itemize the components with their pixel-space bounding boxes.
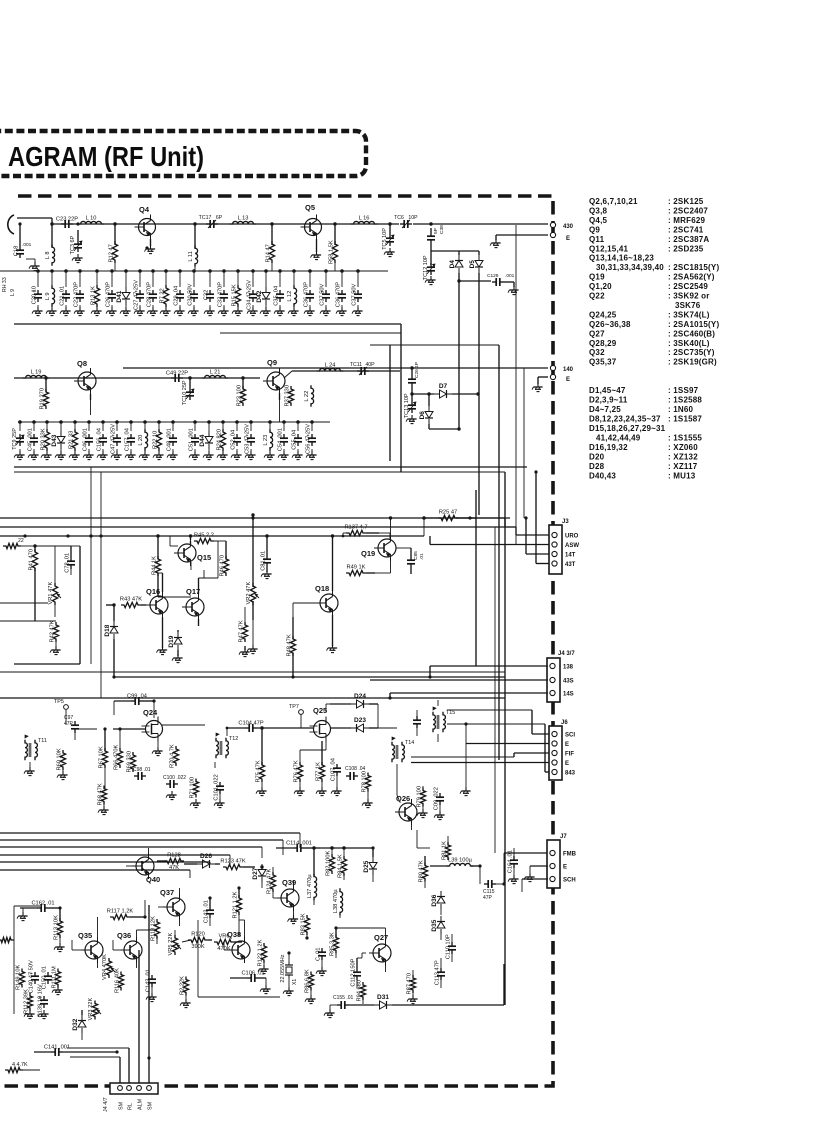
ground E mid (532, 383, 543, 392)
wire Q36 collector (137, 930, 158, 938)
junction (333, 222, 336, 225)
wire 430 E stub (496, 235, 548, 240)
svg-text:L 10: L 10 (86, 216, 97, 222)
svg-text:VR2 47K: VR2 47K (246, 582, 252, 605)
svg-text:L 9: L 9 (45, 292, 51, 300)
transistor Q19 (361, 535, 396, 561)
svg-text:C23 22P: C23 22P (56, 217, 78, 223)
svg-text:R68 47K: R68 47K (98, 783, 104, 805)
ground C26 (106, 307, 117, 316)
svg-text:D19: D19 (168, 635, 175, 647)
wire pin bends (67, 905, 155, 1060)
inductor L10 (78, 216, 105, 225)
svg-text:: 2SC460(B): : 2SC460(B) (668, 329, 715, 338)
capacitor C142 (204, 898, 215, 926)
svg-text:D8,12,23,24,35~37: D8,12,23,24,35~37 (589, 415, 661, 424)
wire bottom pins up (120, 905, 149, 1083)
wire left bus 2 (0, 846, 262, 848)
junction (241, 376, 244, 379)
svg-text:J7: J7 (560, 834, 567, 840)
ground R78 (362, 799, 373, 808)
potentiometer VR3 (88, 998, 101, 1021)
capacitor C141 (34, 1045, 117, 1057)
capacitor C37 (320, 269, 331, 310)
wire Q18 base (293, 603, 316, 617)
capacitor C106 (230, 971, 266, 987)
wire Q17 collector (199, 541, 219, 594)
svg-text:TC13 10P: TC13 10P (404, 393, 410, 418)
inductor L24 (317, 363, 344, 372)
net 430 pin (550, 222, 573, 230)
svg-text:R123 47K: R123 47K (220, 859, 246, 865)
inductor L21 (202, 370, 229, 379)
svg-text:Q37: Q37 (160, 888, 174, 897)
capacitor C28 (147, 269, 158, 310)
svg-text:30,31,33,34,39,40: 30,31,33,34,39,40 (596, 263, 664, 272)
resistor R13 (91, 269, 100, 310)
transistor Q24 (142, 708, 163, 748)
ground C155 (324, 1009, 335, 1018)
wire Q39 collector (294, 880, 308, 938)
svg-text:14T: 14T (565, 553, 576, 559)
capacitor C139 (38, 984, 49, 1017)
svg-text:VR1 47K: VR1 47K (48, 582, 54, 605)
junction (312, 846, 315, 849)
svg-text:: XZ060: : XZ060 (668, 443, 698, 452)
transistor Q40 (132, 848, 160, 884)
inductor L22 (304, 385, 314, 407)
ground D44 (203, 451, 214, 460)
svg-text:L 9: L 9 (10, 289, 16, 296)
svg-text:Q3,8: Q3,8 (589, 206, 607, 215)
resistor R113 (54, 908, 63, 944)
svg-text:L 19: L 19 (31, 370, 42, 376)
svg-text:D4: D4 (449, 260, 456, 269)
capacitor C97 (64, 715, 79, 740)
wire top bus (17, 218, 548, 224)
test point TP5 (54, 699, 68, 725)
diode D26 (184, 853, 220, 868)
wire Q39 base (273, 889, 277, 898)
ground C29 (174, 307, 185, 316)
capacitor C55 (292, 420, 303, 454)
svg-text:47P: 47P (483, 895, 493, 901)
junction (422, 516, 425, 519)
svg-text:R42 47K: R42 47K (50, 620, 56, 642)
capacitor C35 (274, 269, 285, 310)
transistor Q38 (227, 930, 250, 963)
capacitor C23 (56, 217, 78, 229)
svg-text:D41: D41 (116, 290, 123, 302)
ground TC5 (384, 248, 395, 257)
wire VR5 top (175, 930, 182, 938)
wire y570 (122, 597, 191, 605)
svg-text:FMB: FMB (563, 852, 577, 858)
resistor R37 (285, 385, 294, 407)
pin label RL (128, 1103, 134, 1110)
pin label ALM (138, 1098, 144, 1110)
diode D5 (469, 251, 483, 281)
ground T15 (460, 722, 471, 795)
svg-text:R14 47: R14 47 (266, 244, 272, 262)
wire Q35 base (72, 940, 81, 950)
wire R25 to J3 (456, 518, 549, 535)
ground L (288, 307, 299, 316)
capacitor C33 (218, 269, 229, 310)
svg-text:C27 47 25V: C27 47 25V (134, 280, 140, 310)
ground R77 (316, 787, 327, 796)
ground C22 (74, 307, 85, 316)
svg-text:C09 .022: C09 .022 (434, 787, 440, 810)
ground T11 (24, 767, 35, 776)
wire Q19 emitter (375, 561, 391, 573)
transistor Q5 (301, 203, 322, 252)
svg-text:C100 .022: C100 .022 (163, 775, 186, 781)
wire J6 FIF (411, 753, 549, 757)
wire row1 upper rail (20, 270, 388, 272)
potentiometer VR2 (246, 518, 259, 620)
svg-text:Q25: Q25 (313, 706, 327, 715)
svg-text:J4 3/7: J4 3/7 (558, 651, 575, 657)
svg-text:C26 470P: C26 470P (106, 282, 112, 308)
wire vertical x505 (504, 472, 506, 1005)
wire Q24 gate net (105, 729, 120, 740)
svg-text:: 3SK74(L): : 3SK74(L) (668, 310, 710, 319)
inductor L13 (230, 216, 257, 225)
resistor R24 (217, 420, 226, 454)
resistor R66 (114, 729, 123, 770)
svg-text:.001: .001 (505, 273, 515, 279)
resistor R84 (338, 848, 347, 880)
capacitor C29 (174, 269, 185, 310)
junction (476, 392, 479, 395)
ground R47 (239, 648, 250, 657)
wire Q9 emitter (279, 393, 281, 422)
svg-text:R121 1.2K: R121 1.2K (233, 891, 239, 918)
svg-text:C155 .01: C155 .01 (333, 995, 354, 1001)
junction (270, 222, 273, 225)
wire vertical x401 (400, 324, 402, 472)
capacitor C53 (245, 420, 256, 454)
wire J4 138 (430, 666, 548, 677)
svg-text:: 2SC2549: : 2SC2549 (668, 282, 708, 291)
ground C129 (504, 282, 519, 295)
svg-text:R94 680: R94 680 (357, 980, 363, 1002)
resistor R58 (329, 224, 338, 264)
capacitor C45 (28, 420, 39, 454)
capacitor C114 (276, 841, 320, 853)
wire vertical x390 (389, 345, 391, 461)
ground left cluster (24, 986, 63, 1019)
svg-text:: 2SC387A: : 2SC387A (668, 235, 709, 244)
net E pin top (550, 232, 570, 242)
svg-text:138: 138 (563, 665, 574, 671)
svg-text:C29 .04: C29 .04 (174, 286, 180, 306)
svg-text:Q24,25: Q24,25 (589, 310, 617, 319)
svg-text:D27: D27 (252, 867, 259, 879)
svg-text:R15 15K: R15 15K (232, 284, 238, 306)
ground C48 (167, 451, 178, 460)
resistor R81 (442, 836, 451, 860)
ground C37 (352, 307, 363, 316)
diode D36 (431, 891, 445, 915)
svg-text:R19 270: R19 270 (40, 388, 46, 410)
resistor R124 (267, 867, 276, 894)
resistor R70 (170, 744, 179, 768)
wire D6 bottom (429, 428, 459, 430)
trimmer TC17 (199, 215, 223, 228)
svg-text:D44: D44 (199, 434, 206, 446)
svg-text:C54 .001: C54 .001 (278, 428, 284, 451)
ground C20 (32, 307, 43, 316)
resistor R25 (424, 510, 510, 521)
wire Q26 bus (417, 830, 430, 848)
ground Q18 (327, 644, 338, 653)
resistor R128 (157, 853, 184, 872)
resistor R48 (287, 617, 296, 677)
resistor R120 (188, 932, 212, 951)
svg-text:C32: C32 (204, 290, 210, 300)
ground C107 (331, 787, 342, 796)
wire D25 top (320, 847, 373, 849)
svg-text:C52 .04: C52 .04 (231, 430, 237, 450)
svg-text:R87 470: R87 470 (407, 973, 413, 995)
net 140 pin (550, 365, 573, 373)
svg-text:Q35,37: Q35,37 (589, 358, 617, 367)
wire vertical x495 (494, 527, 496, 853)
wire drop L11 (194, 265, 196, 271)
svg-text:R117 1.2K: R117 1.2K (107, 909, 134, 915)
svg-text:C98 .01: C98 .01 (133, 767, 151, 773)
svg-text:TC5 10P: TC5 10P (382, 228, 388, 250)
svg-text:E: E (565, 742, 569, 748)
svg-text:D16,19,32: D16,19,32 (589, 443, 628, 452)
capacitor C113 (435, 958, 446, 988)
svg-text:L 13: L 13 (238, 216, 249, 222)
svg-text:ASW: ASW (565, 543, 579, 549)
junction (113, 222, 116, 225)
wire Q37 base (145, 907, 163, 917)
svg-text:Q27: Q27 (374, 933, 388, 942)
junction (156, 534, 159, 537)
svg-text:R20 33K: R20 33K (41, 428, 47, 450)
capacitor C56 (306, 420, 317, 454)
ground R20 (41, 451, 52, 460)
resistor R14 (266, 224, 275, 263)
svg-text:T12: T12 (229, 736, 238, 742)
wire left bus 1 (0, 839, 283, 841)
svg-text:R149 10K: R149 10K (16, 964, 22, 990)
capacitor C140 (29, 960, 40, 993)
svg-text:D1,45~47: D1,45~47 (589, 386, 626, 395)
svg-text:C106 .01: C106 .01 (241, 971, 264, 977)
svg-text:5P: 5P (433, 228, 439, 234)
svg-text:Q5: Q5 (305, 203, 315, 212)
svg-text:Q35: Q35 (78, 931, 92, 940)
junction (429, 222, 432, 225)
svg-text:D4~7,25: D4~7,25 (589, 405, 621, 414)
wire vertical x524 (523, 368, 525, 518)
dashed schematic border (0, 196, 553, 1086)
wire VR1 box (14, 546, 80, 664)
svg-text:E: E (566, 236, 570, 242)
test point TP7 (289, 704, 303, 728)
capacitor Cmix (413, 710, 421, 736)
diode D42 (256, 269, 270, 310)
svg-text:URO: URO (565, 534, 579, 540)
svg-text:Q15: Q15 (197, 553, 211, 562)
ground R24 (217, 451, 228, 460)
pin label SM (119, 1101, 125, 1110)
wire Q16 collector to R44 (158, 573, 163, 592)
trimmer TC6 (394, 215, 418, 228)
svg-text:: MU13: : MU13 (668, 472, 696, 481)
svg-text:843: 843 (565, 771, 576, 777)
ground C111 (316, 967, 327, 976)
resistor R43 (120, 597, 146, 608)
ground C09 (417, 809, 445, 820)
capacitor C34 (247, 269, 258, 310)
svg-text:R21 33: R21 33 (69, 431, 75, 449)
transistor Q25 (310, 706, 331, 742)
svg-text:SCH: SCH (563, 878, 576, 884)
svg-text:C45 .001: C45 .001 (28, 428, 34, 451)
ground C162 (17, 908, 28, 921)
wire Q38 collector (239, 920, 245, 937)
ground R60 (57, 771, 68, 780)
svg-text:D42: D42 (256, 290, 263, 302)
svg-text:22.055MHz: 22.055MHz (280, 954, 286, 982)
diode D24 (326, 693, 378, 712)
diode D32 (72, 1010, 86, 1040)
svg-text:R76 47K: R76 47K (294, 760, 300, 782)
wire X1 top (289, 953, 302, 962)
svg-text:C85: C85 (413, 551, 419, 560)
wire x91 (89, 467, 92, 664)
ground C32 (204, 307, 215, 316)
junction (410, 392, 413, 395)
diode D7 (412, 383, 478, 398)
svg-text:C18: C18 (14, 246, 20, 256)
svg-text:Q36: Q36 (117, 931, 131, 940)
wire J6 E2 (411, 762, 549, 764)
svg-text:C157 .04: C157 .04 (125, 428, 131, 451)
trimmer TC12 (423, 255, 435, 280)
wire mid connect2 (476, 544, 480, 546)
transistor Q4 (135, 205, 156, 246)
wire Q17 collector (199, 570, 211, 596)
svg-text:C26 1P: C26 1P (414, 362, 420, 378)
wire Q15 collector (189, 534, 192, 540)
wire J7 net (504, 853, 548, 884)
resistor R121 (233, 888, 242, 936)
transistor Q18 (315, 584, 338, 646)
ground C157 (125, 451, 136, 460)
transistor Q37 (160, 888, 185, 926)
svg-text:Q13,14,16~18,23: Q13,14,16~18,23 (589, 254, 654, 263)
junction (265, 534, 268, 537)
capacitor C49 (166, 371, 188, 383)
capacitor C100 (163, 775, 186, 788)
svg-text:T15: T15 (446, 710, 455, 716)
svg-text:Q26~36,38: Q26~36,38 (589, 320, 631, 329)
capacitor C157 (125, 420, 136, 454)
svg-text:R2 22K: R2 22K (180, 976, 186, 995)
transistor Q26 (395, 794, 417, 830)
svg-text:43S: 43S (563, 679, 574, 685)
wire left bus 4 (0, 861, 210, 863)
svg-text:C47 47 25V: C47 47 25V (111, 424, 117, 454)
capacitor C32 (204, 269, 215, 310)
ground Q5 (311, 251, 322, 260)
wire y677 (114, 676, 505, 678)
svg-text:R116 40K: R116 40K (115, 968, 121, 993)
wire mid connect1 (423, 518, 425, 536)
capacitor C54 (278, 420, 289, 454)
junction (457, 427, 460, 430)
ground R42 (50, 646, 61, 655)
resistor R15 (232, 269, 241, 310)
ground C30 (188, 307, 199, 316)
svg-text:D7: D7 (439, 383, 448, 390)
resistor R123 (220, 859, 255, 870)
resistor R76 (294, 750, 303, 788)
svg-text:C30 50V: C30 50V (188, 283, 194, 305)
wire box bottom right (198, 920, 280, 997)
resistor R20 (41, 420, 50, 454)
svg-text:Q2,6,7,10,21: Q2,6,7,10,21 (589, 197, 638, 206)
ground C46 (83, 451, 94, 460)
svg-text:R41 470: R41 470 (29, 549, 35, 571)
capacitor C52 (231, 420, 242, 454)
svg-text:14S: 14S (563, 692, 574, 698)
svg-text:Q28,29: Q28,29 (589, 339, 617, 348)
svg-text:C51 .001: C51 .001 (189, 428, 195, 451)
trimmer TC13 (404, 393, 416, 418)
capacitor C81 (261, 536, 272, 572)
svg-text:C .01: C .01 (316, 947, 322, 961)
svg-text:E: E (563, 865, 567, 871)
capacitor C110 (446, 934, 457, 962)
capacitor C78 (35, 546, 75, 575)
wire y345 (370, 344, 499, 346)
svg-text:: 2SC2407: : 2SC2407 (668, 206, 708, 215)
svg-text:: 2SC1815(Y): : 2SC1815(Y) (668, 263, 719, 272)
junction (188, 376, 191, 379)
svg-text:Q8: Q8 (77, 359, 87, 368)
svg-text:TC6: TC6 (394, 215, 404, 221)
resistor R112 (24, 989, 33, 1014)
capacitor C107 (331, 758, 342, 788)
svg-text:R37 330: R37 330 (285, 385, 291, 407)
pin 4 bottom connector (147, 1086, 152, 1091)
svg-text:TC17: TC17 (199, 215, 212, 221)
connector J6 (549, 720, 576, 780)
svg-text:C56 47 25V: C56 47 25V (306, 424, 312, 454)
resistor R47 (239, 620, 248, 650)
wire T15 secondary (447, 710, 545, 724)
capacitor C99 (114, 694, 154, 719)
svg-text:C139 10 16V: C139 10 16V (38, 984, 44, 1017)
transformer T11 (25, 735, 47, 768)
svg-text:47P: 47P (64, 721, 74, 727)
wire bus y518 (0, 517, 476, 519)
resistor R80 (419, 856, 428, 888)
svg-text:D20: D20 (589, 453, 605, 462)
svg-text:D18: D18 (104, 624, 111, 636)
svg-text:140: 140 (563, 367, 574, 373)
ground C36 (336, 307, 347, 316)
